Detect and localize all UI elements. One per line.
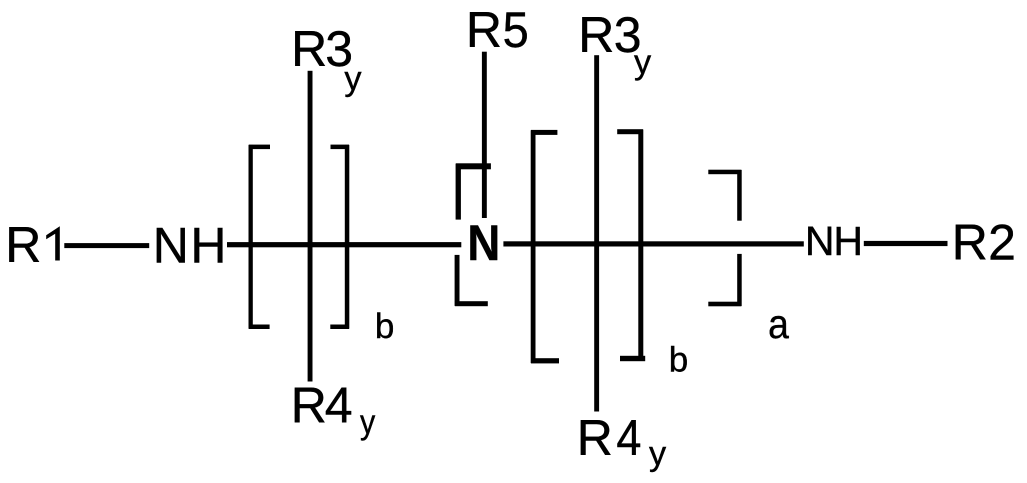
- svg-text:N: N: [153, 217, 189, 273]
- bond R5 to N: [482, 52, 487, 218]
- svg-text:4: 4: [616, 411, 641, 467]
- svg-text:N: N: [805, 218, 835, 264]
- side-chain stem R3-R4 right: [594, 55, 599, 411]
- svg-text:4: 4: [325, 378, 353, 434]
- bracket close repeat-unit b right: [638, 130, 643, 361]
- nitrogen atom N: [467, 216, 500, 271]
- bracket open repeat-unit b left: [249, 145, 253, 329]
- svg-text:5: 5: [503, 3, 529, 59]
- svg-text:R: R: [952, 214, 988, 270]
- svg-text:a: a: [768, 303, 789, 348]
- bracket close repeat-unit a lower corner: [737, 254, 742, 306]
- svg-text:R: R: [578, 7, 614, 63]
- svg-text:R: R: [291, 378, 327, 434]
- side-chain stem R3-R4 left: [308, 71, 313, 382]
- svg-text:y: y: [344, 60, 362, 98]
- svg-text:R: R: [466, 2, 502, 58]
- bracket open around N upper corner: [456, 164, 461, 220]
- bracket open repeat-unit b right: [531, 130, 536, 363]
- bracket open around N lower corner: [455, 255, 460, 306]
- svg-text:y: y: [649, 435, 667, 473]
- bond N to NH right: [503, 241, 803, 246]
- svg-text:b: b: [669, 340, 688, 379]
- svg-text:H: H: [833, 218, 863, 264]
- bond R1-NH: [64, 243, 149, 248]
- svg-text:y: y: [634, 43, 652, 81]
- svg-text:b: b: [375, 307, 394, 346]
- subscript a: [768, 303, 789, 348]
- bond NH-R2: [864, 241, 948, 246]
- svg-text:R: R: [577, 410, 613, 466]
- bracket close repeat-unit a upper corner: [737, 170, 742, 221]
- svg-text:2: 2: [988, 214, 1016, 270]
- bracket close repeat-unit b left: [345, 145, 350, 329]
- svg-text:R: R: [291, 21, 327, 77]
- svg-text:y: y: [360, 403, 376, 441]
- bond NH to repeat unit b: [227, 242, 461, 247]
- svg-text:H: H: [190, 217, 226, 273]
- subscript y of R4 left: [360, 403, 376, 441]
- svg-text:R: R: [5, 217, 41, 273]
- svg-text:N: N: [467, 216, 500, 271]
